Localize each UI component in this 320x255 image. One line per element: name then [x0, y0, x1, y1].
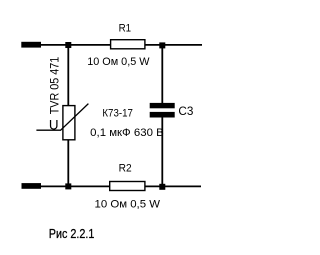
svg-text:0,1 мкФ 630 В: 0,1 мкФ 630 В — [90, 127, 164, 139]
svg-text:R2: R2 — [119, 163, 132, 175]
svg-text:U: U — [49, 118, 59, 133]
svg-text:10 Ом 0,5 W: 10 Ом 0,5 W — [95, 199, 161, 211]
svg-text:10 Ом 0,5 W: 10 Ом 0,5 W — [87, 56, 150, 68]
svg-text:R1: R1 — [119, 23, 132, 35]
svg-text:Рис 2.2.1: Рис 2.2.1 — [49, 227, 95, 241]
svg-text:TVR 05 471: TVR 05 471 — [48, 57, 62, 115]
svg-text:К73-17: К73-17 — [102, 108, 132, 120]
svg-text:C3: C3 — [178, 104, 193, 118]
